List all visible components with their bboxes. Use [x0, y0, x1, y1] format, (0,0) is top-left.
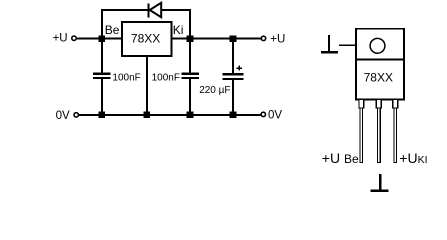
node rail junction regulator ground: [144, 112, 151, 119]
wire electrolytic cap branch lower: [232, 79, 234, 115]
svg-text:0V: 0V: [56, 110, 70, 122]
svg-text:+U Be: +U Be: [322, 150, 359, 166]
wire electrolytic cap branch upper: [232, 39, 234, 75]
node Be junction: [99, 35, 106, 42]
svg-text:100nF: 100nF: [152, 72, 180, 83]
wire input cap branch upper: [101, 39, 103, 74]
pin 2 lead: [378, 108, 381, 163]
capacitor C3 220uF (electrolytic): [223, 74, 244, 79]
node rail junction C3: [230, 112, 237, 119]
mounting hole: [370, 38, 385, 53]
capacitor C1 100nF (input): [93, 74, 110, 78]
svg-text:78XX: 78XX: [364, 71, 393, 85]
node output cap junction top: [230, 35, 237, 42]
node rail junction C2: [187, 112, 194, 119]
wire top loop left segment (Be junction up and over to diode): [102, 10, 148, 39]
wire output cap branch upper: [189, 39, 191, 74]
svg-text:0V: 0V: [268, 109, 282, 121]
svg-text:+U: +U: [270, 33, 285, 45]
svg-text:Be: Be: [105, 23, 120, 37]
svg-text:+U: +U: [53, 32, 68, 44]
svg-text:100nF: 100nF: [112, 72, 140, 83]
wire output rail (regulator to +U terminal): [172, 38, 261, 40]
wire input cap branch lower: [101, 78, 103, 115]
ground (middle pin, below package): [371, 174, 389, 191]
capacitor C2 100nF (output): [182, 74, 199, 78]
node rail junction C1: [99, 112, 106, 119]
pin 1 lead: [360, 108, 363, 163]
wire top loop right segment (diode to Ki junction): [161, 10, 190, 39]
regulator U1 78XX: [122, 22, 172, 56]
svg-text:78XX: 78XX: [131, 32, 160, 46]
terminal left 0V: [74, 113, 78, 117]
wire ground to package tab: [339, 44, 362, 46]
ground (tab, top left of package): [321, 35, 338, 52]
terminal left +U: [72, 36, 76, 40]
pin 2 stub: [376, 100, 381, 109]
pin 3 stub: [393, 100, 398, 109]
terminal right 0V: [261, 112, 265, 116]
wire input rail (+U terminal to regulator): [77, 38, 122, 40]
terminal right +U: [261, 36, 265, 40]
svg-text:Ki: Ki: [173, 23, 184, 37]
node Ki junction: [187, 35, 194, 42]
pin 3 lead: [394, 108, 397, 163]
svg-text:220 µF: 220 µF: [199, 85, 230, 96]
capacitor C3 220uF polarity plus: [237, 66, 242, 71]
pin 1 stub: [359, 100, 364, 109]
wire regulator ground branch: [146, 56, 148, 115]
wire output cap branch lower: [189, 78, 191, 115]
wire 0V rail: [79, 114, 261, 116]
diode D1 (protection diode, cathode left): [149, 3, 162, 18]
package TO-220 body: [356, 29, 404, 100]
